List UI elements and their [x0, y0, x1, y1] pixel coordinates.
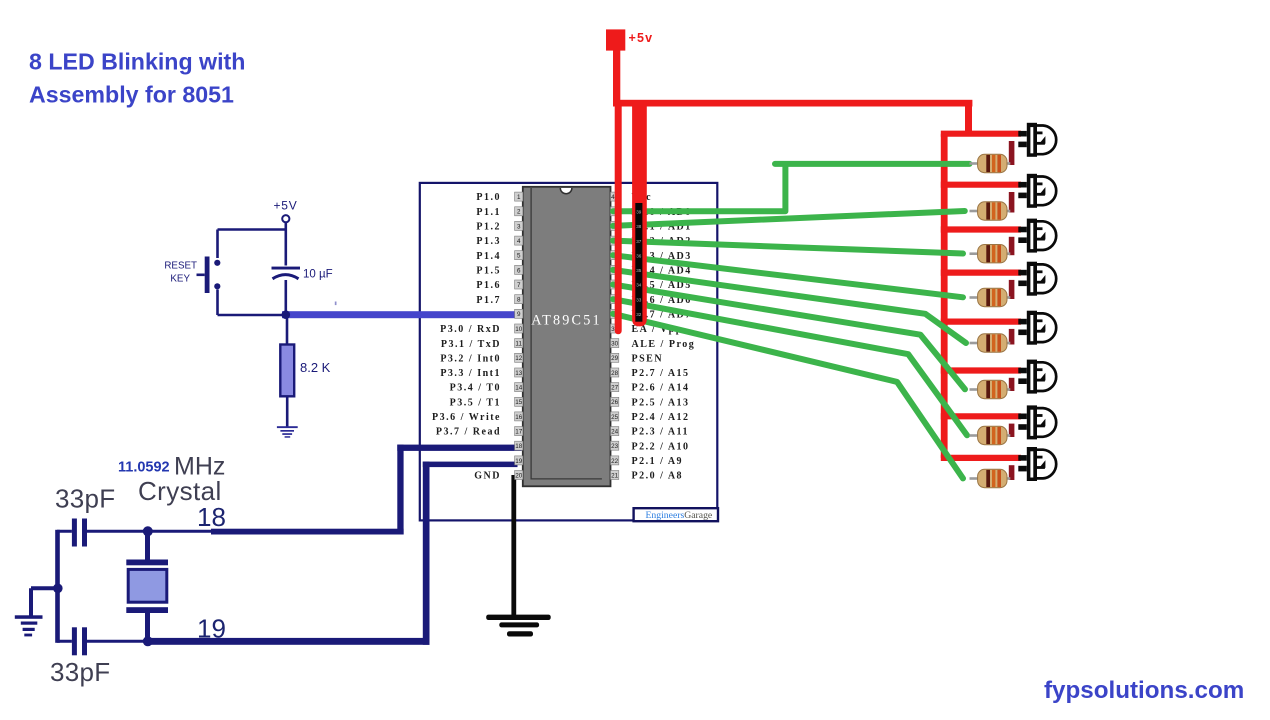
svg-text:34: 34 [636, 283, 642, 288]
junction to ground [53, 584, 63, 594]
svg-text:16: 16 [515, 414, 523, 421]
pin 17 P3.7 / Read [515, 427, 523, 436]
resistor R8 [970, 469, 1011, 487]
pin 34 P0.5 / AD5 [611, 280, 619, 289]
pin 12 P3.2 / Int0 [515, 353, 523, 362]
svg-text:P2.7 / A15: P2.7 / A15 [632, 368, 690, 379]
+5v top rail [613, 100, 972, 107]
pin 15 P3.5 / T1 [515, 397, 523, 406]
svg-text:P3.3 / Int1: P3.3 / Int1 [440, 368, 501, 379]
svg-text:KEY: KEY [170, 274, 190, 285]
pin 33 P0.6 / AD6 [611, 295, 619, 304]
elbow rail to LED row 1 [965, 103, 972, 131]
svg-text:20: 20 [515, 472, 523, 479]
pin 25 P2.4 / A12 [611, 412, 619, 421]
svg-text:30: 30 [611, 341, 619, 348]
pin 2 P1.1 [515, 207, 523, 216]
svg-text:8 LED Blinking with: 8 LED Blinking with [29, 49, 245, 75]
red branch to LED 4 [941, 270, 1021, 276]
resistor R5 [970, 334, 1011, 352]
pin 29 PSEN [611, 353, 619, 362]
cathode wire LED 7 [1009, 424, 1015, 437]
svg-text:29: 29 [611, 355, 619, 362]
green wire P0.1 to R2 [613, 211, 965, 226]
svg-text:7: 7 [517, 282, 521, 289]
pin 7 P1.6 [515, 280, 523, 289]
pin 5 P1.4 [515, 251, 523, 260]
resistor R6 [970, 380, 1011, 398]
svg-text:P1.7: P1.7 [476, 295, 501, 306]
LED supply bus vertical [941, 134, 948, 458]
svg-text:39: 39 [636, 210, 642, 215]
red branch to LED 7 [941, 413, 1021, 419]
stray mark [335, 302, 337, 306]
svg-text:P3.4 / T0: P3.4 / T0 [450, 383, 501, 394]
svg-text:2: 2 [517, 209, 521, 216]
svg-text:P2.5 / A13: P2.5 / A13 [632, 397, 690, 408]
ground (crystal) [15, 615, 43, 636]
cathode wire LED 8 [1009, 465, 1015, 480]
pin 23 P2.2 / A10 [611, 441, 619, 450]
svg-text:P3.7 / Read: P3.7 / Read [436, 427, 501, 438]
pin 31 EA / Vpp [611, 324, 619, 333]
svg-text:37: 37 [636, 239, 642, 244]
RST wire to IC [282, 311, 522, 318]
svg-text:12: 12 [515, 355, 523, 362]
cathode wire LED 6 [1009, 378, 1015, 391]
cathode wire LED 5 [1009, 329, 1015, 345]
pin 37 P0.2 / AD2 [611, 236, 619, 245]
svg-text:ALE / Prog: ALE / Prog [632, 339, 696, 350]
IC outer box [420, 183, 718, 521]
svg-text:P3.1 / TxD: P3.1 / TxD [441, 339, 501, 350]
resistor R1 [970, 154, 1011, 172]
svg-text:19: 19 [515, 458, 523, 465]
pin 24 P2.3 / A11 [611, 427, 619, 436]
svg-text:6: 6 [517, 267, 521, 274]
IC body AT89C51 [523, 187, 611, 487]
cathode wire LED 3 [1009, 237, 1015, 255]
svg-text:36: 36 [636, 253, 642, 258]
pin 9 RST [515, 309, 523, 318]
svg-text:33pF: 33pF [50, 657, 110, 687]
ground (reset) [277, 426, 298, 438]
svg-text:22: 22 [611, 458, 619, 465]
node 19 junction [143, 636, 153, 646]
black P0 pin strip [635, 203, 642, 322]
pin 18 XTAL2 [515, 441, 523, 450]
pin 16 P3.6 / Write [515, 412, 523, 421]
pin 4 P1.3 [515, 236, 523, 245]
svg-text:P2.1 / A9: P2.1 / A9 [632, 456, 684, 467]
svg-text:+5V: +5V [274, 199, 298, 213]
pin 3 P1.2 [515, 221, 523, 230]
pin 11 P3.1 / TxD [515, 339, 523, 348]
cathode wire LED 1 [1009, 141, 1015, 165]
pin 28 P2.7 / A15 [611, 368, 619, 377]
wire +5v square to rail [613, 49, 620, 104]
pin 40 Vcc [611, 192, 619, 201]
pin 8 P1.7 [515, 295, 523, 304]
cathode wire LED 4 [1009, 280, 1015, 299]
svg-text:P3.6 / Write: P3.6 / Write [432, 412, 501, 423]
left vertical wire joining caps [55, 530, 60, 643]
pin 38 P0.1 / AD1 [611, 221, 619, 230]
resistor R3 [970, 245, 1011, 263]
svg-text:23: 23 [611, 443, 619, 450]
svg-text:P1.5: P1.5 [476, 266, 501, 277]
pin 1 P1.0 [515, 192, 523, 201]
svg-text:P2.6 / A14: P2.6 / A14 [632, 383, 690, 394]
svg-text:24: 24 [611, 429, 619, 436]
svg-text:35: 35 [636, 268, 642, 273]
LED D3 [1018, 219, 1056, 253]
capacitor 33pF top [72, 519, 77, 547]
pin 32 P0.7 / AD7 [611, 309, 619, 318]
svg-text:PSEN: PSEN [632, 353, 664, 364]
svg-text:EngineersGarage: EngineersGarage [646, 510, 713, 521]
svg-text:P1.1: P1.1 [476, 207, 501, 218]
green wire P0.4 to R5 [613, 270, 966, 343]
svg-text:33pF: 33pF [55, 484, 115, 514]
LED D8 [1018, 447, 1056, 481]
pin 14 P3.4 / T0 [515, 383, 523, 392]
svg-text:fypsolutions.com: fypsolutions.com [1044, 677, 1244, 704]
svg-text:P3.0 / RxD: P3.0 / RxD [440, 324, 501, 335]
reset key push button [214, 260, 220, 266]
wire resistor to ground [286, 397, 289, 427]
LED D4 [1018, 262, 1056, 296]
red branch to LED 6 [941, 367, 1021, 373]
svg-text:AT89C51: AT89C51 [531, 313, 602, 329]
svg-text:GND: GND [474, 471, 501, 482]
svg-text:10 µF: 10 µF [303, 269, 333, 281]
svg-text:P2.3 / A11: P2.3 / A11 [632, 427, 690, 438]
LED D1 [1018, 123, 1056, 157]
pin 13 P3.3 / Int1 [515, 368, 523, 377]
svg-text:P1.0: P1.0 [476, 192, 501, 203]
svg-text:1: 1 [517, 194, 521, 201]
svg-text:P1.3: P1.3 [476, 236, 501, 247]
svg-text:11.0592: 11.0592 [118, 460, 170, 476]
LED D6 [1018, 360, 1056, 394]
red band over P0 pin column [632, 103, 647, 326]
IC notch [560, 188, 572, 194]
resistor 8.2K [280, 345, 294, 397]
green wire P0.5 to R6 [613, 285, 965, 390]
+5v red wire down to EA/Vpp pin [615, 103, 622, 334]
pin 26 P2.5 / A13 [611, 397, 619, 406]
capacitor 33pF bottom [72, 627, 77, 655]
svg-text:25: 25 [611, 414, 619, 421]
LED D2 [1018, 174, 1056, 208]
resistor R4 [970, 288, 1011, 306]
cathode wire LED 2 [1009, 192, 1015, 213]
svg-text:15: 15 [515, 399, 523, 406]
ground (IC GND) [486, 615, 551, 637]
svg-text:P1.2: P1.2 [476, 222, 501, 233]
svg-text:17: 17 [515, 429, 523, 436]
svg-text:14: 14 [515, 385, 523, 392]
svg-text:RESET: RESET [164, 261, 197, 272]
wire crystal node18 to XTAL2 pin [147, 530, 211, 533]
pin 22 P2.1 / A9 [611, 456, 619, 465]
svg-text:P2.2 / A10: P2.2 / A10 [632, 441, 690, 452]
LED D7 [1018, 405, 1056, 439]
wire GND pin to ground [511, 475, 516, 620]
green wire P0.7 to R8 [613, 314, 963, 479]
pin 27 P2.6 / A14 [611, 383, 619, 392]
svg-text:18: 18 [197, 502, 226, 532]
green wire P0.0 to R1 [613, 164, 970, 211]
pin 30 ALE / Prog [611, 339, 619, 348]
wire crystal node19 to XTAL1 pin [147, 638, 430, 645]
svg-text:8.2 K: 8.2 K [300, 360, 331, 375]
node 18 junction [143, 526, 153, 536]
red branch to LED 1 [941, 131, 1021, 137]
resistor R7 [970, 426, 1011, 444]
pin 21 P2.0 / A8 [611, 471, 619, 480]
green wire P0.3 to R4 [613, 255, 963, 297]
crystal X1 [145, 531, 150, 641]
svg-text:38: 38 [636, 224, 642, 229]
svg-text:9: 9 [517, 311, 521, 318]
svg-text:Assembly for 8051: Assembly for 8051 [29, 82, 234, 108]
svg-text:+5v: +5v [629, 31, 654, 45]
+5v terminal square [606, 29, 625, 50]
svg-text:P2.0 / A8: P2.0 / A8 [632, 471, 684, 482]
pin 20 GND [515, 471, 523, 480]
svg-text:28: 28 [611, 370, 619, 377]
svg-text:27: 27 [611, 385, 619, 392]
green wire P0.6 to R7 [613, 299, 967, 435]
svg-text:P3.5 / T1: P3.5 / T1 [450, 397, 501, 408]
wire +5V to node [218, 222, 286, 258]
EngineersGarage badge [634, 508, 718, 521]
svg-text:11: 11 [515, 341, 522, 348]
red branch to LED 3 [941, 226, 1021, 232]
pin 10 P3.0 / RxD [515, 324, 523, 333]
svg-text:13: 13 [515, 370, 523, 377]
green wire P0.2 to R3 [613, 241, 963, 254]
capacitor C 10uF [284, 230, 287, 266]
svg-text:P2.4 / A12: P2.4 / A12 [632, 412, 690, 423]
pin 6 P1.5 [515, 265, 523, 274]
svg-text:8: 8 [517, 297, 521, 304]
pin 19 XTAL1 [515, 456, 523, 465]
svg-text:P1.4: P1.4 [476, 251, 501, 262]
svg-text:33: 33 [636, 297, 642, 302]
svg-text:P3.2 / Int0: P3.2 / Int0 [440, 353, 501, 364]
red branch to LED 8 [941, 455, 1021, 461]
svg-text:26: 26 [611, 399, 619, 406]
svg-text:32: 32 [636, 312, 642, 317]
wire node to resistor [286, 318, 289, 345]
svg-text:21: 21 [611, 472, 619, 479]
svg-text:18: 18 [515, 443, 523, 450]
wire button to node [218, 290, 284, 316]
red branch to LED 2 [941, 182, 1021, 188]
red branch to LED 5 [941, 319, 1021, 325]
svg-text:5: 5 [517, 253, 521, 260]
svg-text:P1.6: P1.6 [476, 280, 501, 291]
svg-text:4: 4 [517, 238, 521, 245]
svg-text:10: 10 [515, 326, 523, 333]
pin 36 P0.3 / AD3 [611, 251, 619, 260]
svg-text:3: 3 [517, 223, 521, 230]
LED D5 [1018, 311, 1056, 345]
pin 35 P0.4 / AD4 [611, 265, 619, 274]
pin 39 P0.0 / AD0 [611, 207, 619, 216]
resistor R2 [970, 202, 1011, 220]
